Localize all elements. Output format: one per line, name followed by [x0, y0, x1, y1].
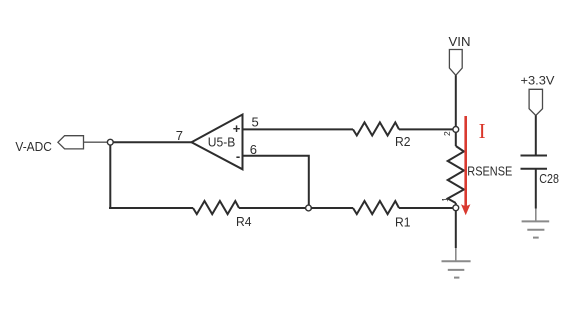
wire node 1 to ground	[455, 211, 457, 248]
svg-text:RSENSE: RSENSE	[467, 164, 512, 178]
node B junction	[306, 205, 312, 211]
svg-text:V-ADC: V-ADC	[15, 140, 52, 154]
wire node A down	[109, 145, 111, 208]
ground stub	[455, 248, 457, 261]
port V-ADC connector	[58, 136, 84, 149]
wire pin6 right then down to node B	[243, 156, 309, 206]
op-amp U5-B	[192, 115, 243, 170]
wire node A to op-amp output	[113, 141, 192, 143]
wire C28 to ground	[535, 169, 537, 209]
svg-text:R2: R2	[395, 135, 411, 149]
ground stub 2	[535, 209, 537, 222]
svg-text:VIN: VIN	[449, 34, 471, 49]
power port VIN connector	[449, 50, 462, 76]
wire R1 to node 1	[399, 207, 453, 209]
node 1 junction	[453, 205, 459, 211]
svg-text:U5-B: U5-B	[208, 136, 236, 150]
resistor R1	[353, 201, 399, 214]
svg-text:+: +	[233, 121, 241, 136]
wire VIN down to node 2	[455, 75, 457, 126]
svg-text:1: 1	[440, 197, 450, 202]
svg-text:6: 6	[250, 142, 257, 157]
ground symbol 2	[522, 221, 550, 237]
node 2 junction	[453, 126, 459, 132]
svg-text:R1: R1	[395, 216, 411, 230]
ground symbol	[442, 261, 471, 277]
capacitor C28	[521, 156, 548, 169]
wire port to node A	[84, 141, 108, 143]
resistor RSENSE	[448, 146, 464, 203]
svg-text:+3.3V: +3.3V	[521, 74, 555, 88]
wire R2 to node 2	[399, 128, 453, 130]
wire +3.3V to C28	[535, 115, 537, 155]
power port +3.3V connector	[529, 89, 542, 115]
wire to R4	[109, 207, 193, 209]
wire RSENSE to node 1	[455, 203, 457, 206]
wire pin5 to R2	[243, 128, 354, 130]
node A junction	[107, 139, 113, 145]
svg-text:5: 5	[252, 115, 259, 130]
wire node 2 to RSENSE	[455, 132, 457, 146]
resistor R4	[193, 201, 239, 214]
resistor R2	[353, 122, 399, 135]
svg-text:-: -	[236, 149, 240, 164]
wire node B to R1	[311, 207, 354, 209]
svg-text:C28: C28	[539, 172, 559, 186]
svg-text:R4: R4	[236, 215, 252, 229]
svg-text:I: I	[479, 119, 486, 143]
wire R4 to node B	[239, 207, 306, 209]
svg-text:7: 7	[176, 128, 183, 143]
current arrow I	[461, 116, 470, 215]
svg-text:2: 2	[442, 131, 452, 136]
